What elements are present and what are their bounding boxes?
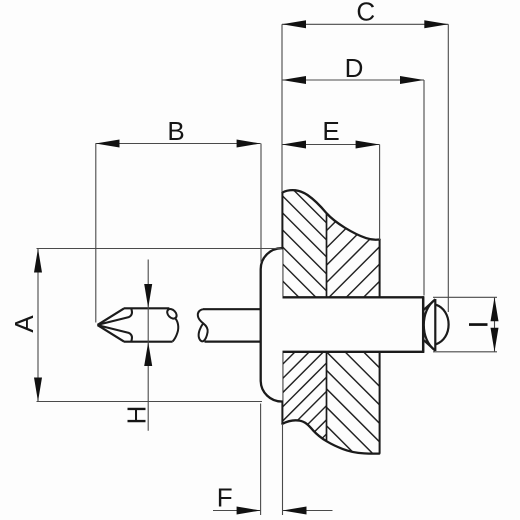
svg-text:B: B bbox=[167, 116, 184, 146]
plate top break edge bbox=[282, 190, 379, 240]
plate lower-left hatch bbox=[275, 284, 335, 500]
svg-text:D: D bbox=[345, 53, 364, 83]
plate joint lower bbox=[326, 352, 328, 441]
dim A line bbox=[37, 249, 39, 402]
dim CDE left ext line bbox=[281, 24, 283, 192]
dim D line bbox=[282, 79, 424, 81]
svg-text:E: E bbox=[322, 116, 339, 146]
mandrel point top line bbox=[124, 307, 170, 309]
dim E line bbox=[282, 144, 380, 146]
mandrel shaft bottom line bbox=[205, 341, 262, 343]
dim B left ext line bbox=[95, 144, 97, 323]
dim B line bbox=[96, 143, 261, 145]
rivet body end cap bbox=[422, 296, 425, 353]
dim C line bbox=[282, 23, 448, 25]
dim B right arrow bbox=[237, 140, 261, 148]
svg-text:C: C bbox=[356, 0, 375, 26]
dim F left arrow bbox=[237, 507, 261, 515]
dim B left arrow bbox=[96, 140, 120, 148]
dim E left arrow bbox=[282, 141, 306, 149]
plate upper-right hatch bbox=[320, 155, 385, 376]
dim A bottom arrow bbox=[34, 378, 42, 402]
dim D right arrow bbox=[400, 76, 424, 84]
mandrel point tip upper inner bbox=[98, 309, 132, 325]
plate joint upper bbox=[326, 213, 328, 297]
plate left face upper bbox=[281, 193, 283, 298]
dim B right ext line bbox=[260, 144, 262, 263]
mandrel point break loop bbox=[165, 307, 178, 320]
plate right face upper bbox=[379, 240, 381, 298]
dim D right ext line bbox=[423, 80, 425, 296]
dim F left ext line bbox=[260, 404, 262, 516]
mandrel ball top chamfer bbox=[424, 299, 435, 309]
dim H top arrow bbox=[144, 284, 152, 308]
mandrel point bottom line bbox=[124, 341, 173, 343]
svg-text:F: F bbox=[217, 483, 233, 513]
dim C left arrow bbox=[282, 20, 306, 28]
plate bottom break edge bbox=[282, 420, 379, 453]
dim F right ext line bbox=[282, 424, 284, 515]
plate lower-right hatch bbox=[320, 271, 385, 520]
mandrel ball bottom chamfer bbox=[424, 340, 435, 350]
mandrel shaft break bbox=[198, 309, 208, 341]
dim C right ext line bbox=[447, 24, 449, 312]
rivet flange bbox=[261, 248, 283, 401]
plate upper-left hatch bbox=[275, 120, 335, 350]
svg-text:H: H bbox=[122, 406, 152, 425]
dim A top arrow bbox=[34, 249, 42, 273]
plate left face lower bbox=[281, 352, 283, 424]
dim I bottom arrow bbox=[491, 328, 499, 352]
dim F line left segment bbox=[213, 510, 261, 512]
dim F right arrow bbox=[283, 507, 307, 515]
dim I top arrow bbox=[491, 297, 499, 321]
mandrel ball back arc bbox=[424, 300, 436, 351]
dim I bottom ext line bbox=[433, 351, 497, 353]
dim C right arrow bbox=[424, 20, 448, 28]
dim I top ext line bbox=[433, 296, 497, 298]
mandrel ball face bbox=[434, 299, 436, 351]
rivet body top line bbox=[283, 296, 425, 298]
dim I line bbox=[494, 297, 496, 352]
mandrel point tip upper outer bbox=[98, 308, 125, 325]
dim F line right segment bbox=[283, 510, 333, 512]
mandrel point tip lower inner bbox=[98, 325, 132, 341]
dim E right ext line bbox=[379, 145, 381, 241]
mandrel ball front arc bbox=[436, 305, 449, 345]
dim A top ext line bbox=[37, 248, 282, 250]
mandrel point tip lower outer bbox=[98, 325, 125, 342]
dim A bottom ext line bbox=[37, 401, 263, 403]
dim H bottom arrow bbox=[144, 342, 152, 366]
mandrel shaft top line bbox=[203, 308, 261, 310]
dim E right arrow bbox=[356, 141, 380, 149]
svg-text:A: A bbox=[9, 315, 39, 333]
dim I label (rotated I appears as dash) bbox=[469, 323, 488, 326]
dim D left arrow bbox=[282, 76, 306, 84]
plate right face lower bbox=[379, 352, 381, 454]
rivet body bottom line bbox=[283, 351, 425, 353]
mandrel point break arc bbox=[173, 318, 179, 342]
dim H line bbox=[147, 260, 149, 431]
